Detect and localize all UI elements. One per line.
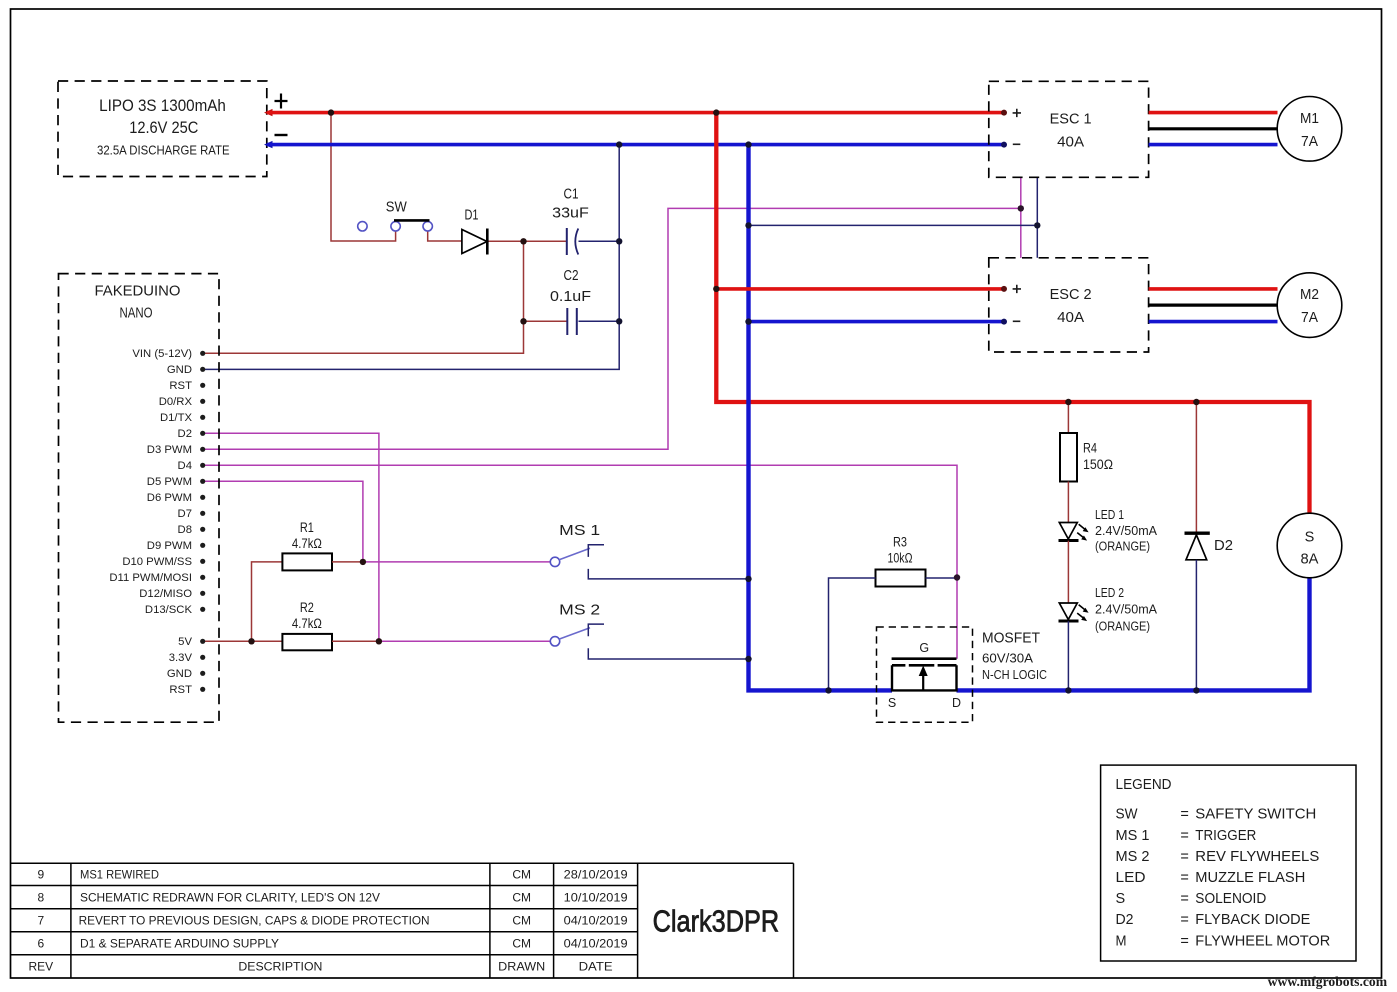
junction red bus at D2 feed	[1193, 399, 1199, 405]
svg-text:LED 2: LED 2	[1095, 586, 1124, 600]
svg-text:=: =	[1180, 891, 1188, 907]
svg-text:S: S	[888, 696, 896, 710]
svg-text:TRIGGER: TRIGGER	[1195, 828, 1256, 844]
pin D13/SCK	[145, 604, 205, 616]
junction R2 right	[376, 638, 382, 644]
table row 6	[37, 936, 627, 950]
svg-text:CM: CM	[512, 914, 531, 928]
legend row MS 1	[1116, 828, 1257, 844]
svg-text:=: =	[1180, 912, 1188, 928]
LED2	[1059, 586, 1158, 633]
arrowhead battery minus	[264, 141, 273, 148]
wire: D1 to node A	[488, 240, 567, 242]
svg-text:=: =	[1180, 933, 1188, 949]
svg-text:150Ω: 150Ω	[1083, 457, 1113, 472]
svg-text:M: M	[1116, 933, 1127, 949]
svg-text:R1: R1	[300, 520, 314, 535]
svg-text:C1: C1	[564, 186, 579, 203]
svg-text:DESCRIPTION: DESCRIPTION	[238, 960, 322, 974]
LED1	[1059, 508, 1158, 554]
svg-text:FLYBACK DIODE: FLYBACK DIODE	[1195, 912, 1310, 928]
junction on red bus at SW tap	[328, 109, 334, 115]
svg-text:4.7kΩ: 4.7kΩ	[292, 616, 322, 631]
table row 7	[37, 914, 627, 928]
svg-text:REV FLYWHEELS: REV FLYWHEELS	[1195, 849, 1319, 865]
junction blue trunk at ESC return	[745, 222, 751, 228]
wire: M1 blue lead	[1149, 143, 1278, 147]
svg-text:4.7kΩ: 4.7kΩ	[292, 536, 322, 551]
svg-text:LEGEND: LEGEND	[1116, 776, 1172, 793]
wire: dark red 5V to R1	[252, 562, 283, 641]
svg-text:8A: 8A	[1301, 552, 1319, 568]
wire: magenta D5 signal	[203, 481, 363, 562]
pin 5V	[178, 636, 205, 648]
svg-text:7A: 7A	[1301, 134, 1318, 150]
legend row M	[1116, 933, 1331, 949]
junction gate node	[954, 574, 960, 580]
svg-text:NANO: NANO	[120, 304, 153, 321]
wire: magenta D3 signal to ESCs	[203, 208, 1021, 449]
pin D12/MISO	[139, 588, 205, 600]
svg-text:2.4V/50mA: 2.4V/50mA	[1095, 602, 1158, 616]
legend row MS 2	[1116, 849, 1320, 865]
battery minus terminal	[275, 134, 288, 136]
wire: M2 red lead	[1149, 287, 1278, 291]
svg-text:SCHEMATIC REDRAWN FOR CLARITY,: SCHEMATIC REDRAWN FOR CLARITY, LED'S ON …	[80, 890, 380, 904]
junction on blue bus at C bus	[616, 141, 622, 147]
svg-text:6: 6	[37, 936, 44, 950]
svg-text:D12/MISO: D12/MISO	[139, 588, 192, 600]
svg-text:ESC 1: ESC 1	[1050, 111, 1092, 127]
pin D10 PWM/SS	[122, 556, 205, 568]
svg-text:N-CH LOGIC: N-CH LOGIC	[982, 668, 1047, 682]
wire: C1 to navy bus	[579, 240, 620, 242]
svg-text:CM: CM	[512, 868, 531, 882]
wire: red ESC2 supply	[716, 287, 1004, 291]
wire: magenta vertical between ESC1 and ESC2	[1020, 177, 1022, 257]
capacitor C2	[550, 267, 591, 335]
svg-text:12.6V 25C: 12.6V 25C	[129, 119, 198, 137]
table row 9	[37, 868, 627, 882]
junction R1 right	[360, 559, 366, 565]
legend row SW	[1116, 807, 1317, 823]
svg-text:=: =	[1180, 807, 1188, 823]
junction navy ESC return	[1034, 222, 1040, 228]
svg-text:FLYWHEEL MOTOR: FLYWHEEL MOTOR	[1195, 933, 1330, 949]
wire: C2 to navy bus	[579, 320, 620, 322]
pin D2	[178, 428, 206, 440]
resistor R2	[282, 600, 379, 650]
wire: GND navy	[203, 145, 620, 370]
svg-text:(ORANGE): (ORANGE)	[1095, 539, 1150, 553]
wire: magenta D2 signal	[203, 433, 379, 641]
junction C1 right	[616, 238, 622, 244]
wire: navy ESC signal return	[749, 224, 1038, 226]
legend row S	[1116, 891, 1267, 907]
svg-text:MS 2: MS 2	[559, 602, 600, 619]
battery BT LIPO box	[58, 81, 267, 177]
svg-text:M2: M2	[1300, 287, 1319, 303]
pin 3.3V	[169, 652, 206, 664]
svg-text:MOSFET: MOSFET	[982, 629, 1040, 646]
svg-text:LIPO 3S 1300mAh: LIPO 3S 1300mAh	[99, 97, 226, 115]
wire: LED2 to ground bus	[1067, 621, 1069, 690]
wire: VIN dark red	[203, 241, 524, 353]
wire: blue ground bus top	[267, 143, 1004, 147]
svg-text:3.3V: 3.3V	[169, 652, 193, 664]
svg-text:04/10/2019: 04/10/2019	[564, 936, 628, 950]
pin D4	[178, 460, 206, 472]
wire: thick red vertical trunk	[716, 113, 1309, 515]
pin RST	[169, 380, 205, 392]
wire: M1 red lead	[1149, 111, 1278, 115]
diode D1	[462, 207, 487, 255]
svg-text:SAFETY SWITCH: SAFETY SWITCH	[1195, 807, 1316, 823]
svg-text:SW: SW	[386, 198, 408, 215]
svg-text:C2: C2	[564, 267, 579, 284]
svg-text:D7: D7	[178, 508, 192, 520]
svg-text:LED: LED	[1116, 870, 1146, 886]
junction C2 right	[616, 318, 622, 324]
pin RST2	[169, 684, 205, 696]
junction on blue bus at trunk	[745, 141, 751, 147]
junction ground bus at LED chain	[1065, 687, 1071, 693]
svg-text:0.1uF: 0.1uF	[550, 288, 591, 305]
wire: blue ESC2 return	[749, 320, 1005, 324]
svg-text:=: =	[1180, 849, 1188, 865]
wire: M2 blue lead	[1149, 320, 1278, 324]
switch SW safety	[358, 198, 433, 231]
svg-text:D2: D2	[1214, 537, 1233, 554]
svg-text:10/10/2019: 10/10/2019	[564, 890, 628, 904]
pin D5 PWM	[147, 476, 206, 488]
svg-text:D2: D2	[178, 428, 192, 440]
svg-text:www.mfgrobots.com: www.mfgrobots.com	[1268, 974, 1388, 989]
junction ground bus at R3	[825, 687, 831, 693]
pin D0/RX	[159, 396, 206, 408]
junction red bus at R4	[1065, 399, 1071, 405]
svg-text:40A: 40A	[1057, 310, 1084, 326]
svg-text:D1/TX: D1/TX	[160, 412, 192, 424]
junction ground bus at D2	[1193, 687, 1199, 693]
svg-text:GND: GND	[167, 364, 192, 376]
pin D6 PWM	[147, 492, 206, 504]
pin D9 PWM	[147, 540, 206, 552]
junction blue trunk at MS2 return	[745, 656, 751, 662]
motor M2	[1277, 273, 1342, 338]
wire: dark red 5V feed	[203, 640, 283, 642]
diode D2 flyback	[1185, 533, 1234, 560]
svg-text:MUZZLE FLASH: MUZZLE FLASH	[1195, 870, 1305, 886]
resistor R1	[282, 520, 363, 571]
wire: LED1 to LED2	[1067, 541, 1069, 603]
table row 8	[37, 890, 627, 904]
pin D8	[178, 524, 206, 536]
svg-text:40A: 40A	[1057, 135, 1084, 151]
svg-text:D13/SCK: D13/SCK	[145, 604, 193, 616]
svg-text:MS1 REWIRED: MS1 REWIRED	[80, 868, 159, 882]
wire: magenta R1 to MS1	[363, 561, 551, 563]
junction 5V at R2	[248, 638, 254, 644]
svg-text:M1: M1	[1300, 111, 1319, 127]
wire: SW to D1	[428, 231, 462, 241]
wire: magenta D4 signal to MOSFET gate	[203, 465, 957, 658]
motor M1	[1277, 97, 1342, 162]
svg-text:R4: R4	[1083, 441, 1097, 456]
svg-text:9: 9	[37, 868, 44, 882]
wire: thick blue vertical trunk	[749, 145, 893, 691]
wire: red power bus top	[267, 111, 1004, 115]
svg-text:(ORANGE): (ORANGE)	[1095, 619, 1150, 633]
svg-text:S: S	[1305, 529, 1315, 545]
wire: magenta R2 to MS2	[379, 640, 551, 642]
wire: R3 right to gate node	[926, 577, 958, 579]
svg-text:D: D	[952, 696, 961, 710]
svg-text:D10 PWM/SS: D10 PWM/SS	[122, 556, 192, 568]
svg-text:MS 1: MS 1	[1116, 828, 1150, 844]
arrowhead battery plus	[264, 109, 273, 116]
pin VIN (5-12V)	[132, 348, 205, 360]
svg-text:GND: GND	[167, 668, 192, 680]
svg-text:G: G	[919, 641, 929, 655]
wire: blue bottom bus right	[957, 578, 1310, 691]
pin D7	[178, 508, 206, 520]
solenoid S	[1277, 513, 1342, 578]
svg-text:=: =	[1180, 870, 1188, 886]
svg-text:D4: D4	[178, 460, 192, 472]
junction node A at C2	[520, 318, 526, 324]
legend row D2	[1116, 912, 1311, 928]
pin D1/TX	[160, 412, 205, 424]
junction red trunk at ESC2	[713, 286, 719, 292]
svg-text:7: 7	[37, 914, 44, 928]
MOSFET Q1	[877, 627, 1048, 722]
svg-text:60V/30A: 60V/30A	[982, 651, 1034, 665]
svg-text:33uF: 33uF	[552, 204, 589, 221]
svg-text:FAKEDUINO: FAKEDUINO	[95, 283, 181, 300]
svg-text:RST: RST	[169, 380, 192, 392]
microswitch MS1	[550, 522, 748, 579]
svg-text:28/10/2019: 28/10/2019	[564, 868, 628, 882]
svg-text:RST: RST	[169, 684, 192, 696]
svg-text:ESC 2: ESC 2	[1050, 287, 1092, 303]
svg-text:D1 & SEPARATE ARDUINO SUPPLY: D1 & SEPARATE ARDUINO SUPPLY	[80, 936, 279, 950]
resistor R3	[876, 535, 926, 587]
svg-text:D2: D2	[1116, 912, 1134, 928]
svg-text:CM: CM	[512, 936, 531, 950]
svg-text:10kΩ: 10kΩ	[888, 551, 913, 566]
svg-text:LED 1: LED 1	[1095, 508, 1124, 522]
pin D11 PWM/MOSI	[109, 572, 205, 584]
table header row	[28, 960, 612, 974]
svg-text:5V: 5V	[178, 636, 192, 648]
pin D3 PWM	[147, 444, 206, 456]
svg-text:SOLENOID: SOLENOID	[1195, 891, 1266, 907]
wire: node A to C2	[524, 320, 567, 322]
junction node A at C1	[520, 238, 526, 244]
wire: D2 to ground bus	[1195, 560, 1197, 691]
junction magenta ESC signal	[1018, 205, 1024, 211]
svg-text:S: S	[1116, 891, 1126, 907]
svg-text:D3 PWM: D3 PWM	[147, 444, 192, 456]
svg-text:D6 PWM: D6 PWM	[147, 492, 192, 504]
wire: dark red battery tap to SW	[331, 113, 396, 241]
svg-text:REVERT TO PREVIOUS DESIGN, CAP: REVERT TO PREVIOUS DESIGN, CAPS & DIODE …	[79, 914, 430, 928]
svg-text:DRAWN: DRAWN	[498, 960, 545, 974]
ESC 2 box	[989, 258, 1149, 352]
wire: M1 black lead	[1149, 127, 1278, 130]
junction blue trunk at ESC2	[745, 318, 751, 324]
svg-text:D5 PWM: D5 PWM	[147, 476, 192, 488]
svg-text:D9 PWM: D9 PWM	[147, 540, 192, 552]
legend box	[1101, 765, 1356, 961]
svg-text:D8: D8	[178, 524, 192, 536]
svg-text:Clark3DPR: Clark3DPR	[653, 904, 780, 939]
capacitor C1	[552, 186, 589, 256]
svg-text:SW: SW	[1116, 807, 1138, 823]
pin GND2	[167, 668, 205, 680]
wire: D2 feed red	[1195, 402, 1197, 533]
svg-text:DATE: DATE	[579, 960, 613, 974]
battery plus terminal	[275, 94, 288, 109]
pin GND	[167, 364, 205, 376]
resistor R4	[1060, 402, 1113, 523]
wire: M2 black lead	[1149, 304, 1278, 307]
junction blue trunk at MS1 return	[745, 576, 751, 582]
microswitch MS2	[550, 602, 748, 659]
legend row LED	[1116, 870, 1306, 886]
svg-text:D0/RX: D0/RX	[159, 396, 193, 408]
ESC 1 box	[989, 81, 1149, 177]
svg-text:7A: 7A	[1301, 310, 1318, 326]
svg-text:REV: REV	[28, 960, 53, 974]
svg-text:R3: R3	[893, 535, 907, 550]
wire: navy vertical between ESC1 and ESC2	[1036, 177, 1038, 257]
svg-text:=: =	[1180, 828, 1188, 844]
revision table lines	[11, 863, 794, 978]
svg-text:R2: R2	[300, 600, 314, 615]
svg-text:04/10/2019: 04/10/2019	[564, 914, 628, 928]
svg-text:MS 2: MS 2	[1116, 849, 1150, 865]
svg-text:D1: D1	[465, 207, 479, 224]
svg-text:2.4V/50mA: 2.4V/50mA	[1095, 524, 1158, 538]
FAKEDUINO NANO box U1	[59, 274, 220, 723]
wire: R3 left to ground bus	[829, 578, 876, 690]
svg-text:MS 1: MS 1	[559, 522, 600, 539]
svg-text:D11 PWM/MOSI: D11 PWM/MOSI	[109, 572, 192, 584]
svg-text:CM: CM	[512, 890, 531, 904]
junction on red bus at trunk	[713, 109, 719, 115]
svg-text:VIN (5-12V): VIN (5-12V)	[132, 348, 192, 360]
svg-text:32.5A DISCHARGE RATE: 32.5A DISCHARGE RATE	[97, 144, 230, 158]
svg-text:8: 8	[37, 890, 44, 904]
